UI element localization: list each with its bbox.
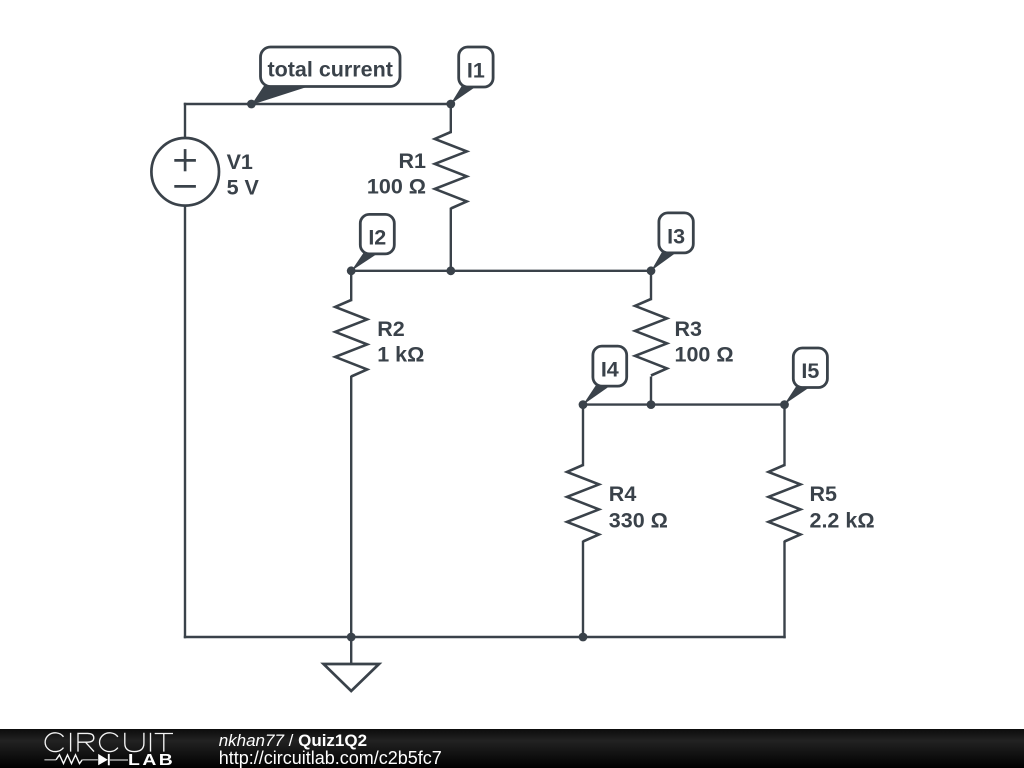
svg-text:I5: I5 xyxy=(801,359,819,383)
junction node I4 / R4 top xyxy=(579,400,588,409)
callout I2 box xyxy=(360,214,394,254)
svg-text:330 Ω: 330 Ω xyxy=(609,508,668,532)
wire top horizontal net V+ xyxy=(185,103,451,105)
svg-text:R2: R2 xyxy=(377,317,405,341)
wire R4 top lead xyxy=(582,405,584,465)
wire R2 bottom lead xyxy=(350,377,352,637)
junction node I2 / R2 top xyxy=(347,266,356,275)
wire R2 top lead xyxy=(350,271,352,300)
callout I2 pointer xyxy=(351,252,379,271)
junction node R3 bottom xyxy=(647,400,656,409)
footer logo CIRCUIT xyxy=(45,733,173,752)
resistor R4 zigzag xyxy=(567,465,599,542)
callout I4 pointer xyxy=(583,385,612,405)
junction node I3 / R3 top xyxy=(647,266,656,275)
svg-text:LAB: LAB xyxy=(128,751,175,768)
callout I1 box xyxy=(459,47,493,87)
svg-text:100 Ω: 100 Ω xyxy=(675,342,734,366)
wire R3 bottom lead xyxy=(650,378,652,405)
junction node I5 / R5 top xyxy=(780,400,789,409)
footer logo resistor-diode glyph xyxy=(44,754,128,765)
wire left vertical from V1 top xyxy=(184,104,186,138)
resistor R1 zigzag xyxy=(435,132,467,209)
callout total current pointer xyxy=(251,85,313,105)
wire middle rail node I2-I3 xyxy=(351,270,651,272)
callout I3 box xyxy=(659,213,693,253)
svg-text:R4: R4 xyxy=(609,482,637,506)
callout total current box xyxy=(261,47,401,87)
voltage source V1 circle xyxy=(151,138,219,206)
wire lower rail node I4-I5 xyxy=(583,403,785,405)
ground symbol xyxy=(324,664,380,691)
resistor R5 zigzag xyxy=(769,465,801,542)
wire R1 top lead xyxy=(450,104,452,132)
callout I1 pointer xyxy=(451,86,478,105)
svg-text:1 kΩ: 1 kΩ xyxy=(377,342,424,366)
callout I4 box xyxy=(593,346,627,386)
svg-text:I2: I2 xyxy=(368,226,386,250)
footer bar xyxy=(0,729,1024,768)
resistor R2 zigzag xyxy=(335,300,367,377)
wire ground stub xyxy=(350,637,352,664)
svg-text:R1: R1 xyxy=(399,149,427,173)
svg-text:http://circuitlab.com/c2b5fc7: http://circuitlab.com/c2b5fc7 xyxy=(219,748,442,768)
callout I5 pointer xyxy=(784,386,812,405)
wire bottom ground rail xyxy=(185,636,785,638)
callout I3 pointer xyxy=(651,251,678,270)
callout I5 box xyxy=(793,348,827,388)
junction node R1 bottom xyxy=(446,266,455,275)
wire R1 bottom lead xyxy=(450,209,452,271)
wire R5 bottom lead xyxy=(783,542,785,637)
svg-text:2.2 kΩ: 2.2 kΩ xyxy=(810,508,875,532)
svg-text:V1: V1 xyxy=(227,150,253,174)
wire R5 top lead xyxy=(783,405,785,465)
voltage source V1 plus sign xyxy=(174,149,196,171)
svg-text:R5: R5 xyxy=(810,482,838,506)
junction node R4 bottom xyxy=(579,633,588,642)
wire R3 top lead xyxy=(650,271,652,299)
junction node total-current on top rail xyxy=(247,100,256,109)
junction node R2 bottom / ground xyxy=(347,633,356,642)
wire R4 bottom lead xyxy=(582,542,584,637)
svg-text:5 V: 5 V xyxy=(227,175,260,199)
svg-text:I4: I4 xyxy=(601,358,619,382)
voltage source V1 minus sign xyxy=(174,185,196,188)
svg-text:I1: I1 xyxy=(467,58,485,82)
svg-text:R3: R3 xyxy=(675,317,703,341)
resistor R3 zigzag xyxy=(635,299,667,376)
svg-text:total current: total current xyxy=(267,58,392,82)
wire left vertical from V1 bottom to ground rail xyxy=(184,206,186,637)
junction node I1 / R1 top xyxy=(446,100,455,109)
svg-text:100 Ω: 100 Ω xyxy=(367,175,426,199)
svg-text:I3: I3 xyxy=(667,224,685,248)
